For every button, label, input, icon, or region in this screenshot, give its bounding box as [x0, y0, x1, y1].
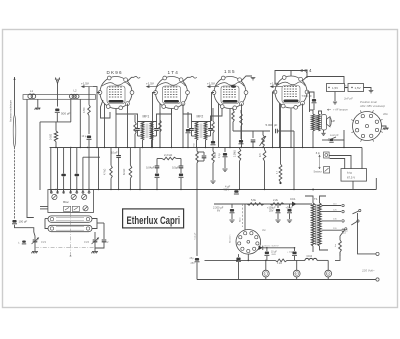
1S5 anode arm ground [242, 76, 253, 81]
svg-text:b.tg: b.tg [347, 171, 352, 175]
title box Etherlux Capri [123, 209, 184, 228]
battery wiring and ground [345, 87, 349, 89]
Bloc left exit wires [40, 206, 48, 208]
resistor x213 4.7k lower [212, 148, 214, 152]
selector common wire [358, 213, 377, 254]
resistor column x135 [134, 115, 136, 122]
capacitor 500pF antenna coupling [55, 109, 59, 112]
tube 3Q4 grids [284, 86, 298, 88]
capacitor x225 blob [224, 148, 226, 153]
tube pin wires down [218, 104, 220, 148]
svg-text:6V: 6V [217, 209, 220, 213]
tube 1S5 pins [244, 91, 248, 95]
svg-text:2,2 kΩ: 2,2 kΩ [164, 153, 172, 157]
tube DK96 electrode outline [107, 86, 125, 104]
svg-text:Abbl. OBV umsteuerp: Abbl. OBV umsteuerp [359, 104, 386, 108]
svg-text:L2: L2 [74, 89, 78, 93]
svg-text:1,5V: 1,5V [332, 86, 338, 90]
T1 top connections [305, 196, 313, 203]
socket ground [383, 128, 389, 130]
svg-text:Position tonal: Position tonal [360, 100, 377, 104]
speaker cone [327, 117, 331, 127]
tube 1T4 cathode bar [164, 100, 179, 103]
DK96 left column to lower bus [98, 148, 100, 190]
bus line upper (filament rail) [50, 147, 362, 149]
svg-text:/40V: /40V [272, 254, 277, 256]
svg-text:+ AF tampon: + AF tampon [333, 108, 348, 112]
bottom line to terminal [197, 279, 376, 281]
tube pin wires down [159, 104, 161, 148]
wire 1T4 anode to MF2 [183, 104, 192, 122]
capacitor under switch [238, 254, 240, 257]
antenna symbol [56, 78, 60, 84]
svg-text:2,2MΩ: 2,2MΩ [235, 150, 237, 157]
svg-text:5,6k: 5,6k [251, 198, 257, 202]
antenna lead insulator loop [13, 115, 16, 147]
svg-text:8.lg: 8.lg [316, 152, 321, 155]
svg-text:+1,5V: +1,5V [146, 81, 154, 85]
svg-text:Secteur: Secteur [314, 171, 322, 174]
upper bus right drop [361, 148, 363, 169]
bloc feed column 5 [88, 148, 90, 194]
padder cap T 1 [63, 148, 65, 174]
svg-text:3-500: 3-500 [50, 133, 53, 140]
tube socket pinout circle [353, 112, 382, 141]
trimmer CV2 [94, 232, 96, 239]
3Q4 top loop [290, 71, 292, 77]
svg-text:220 Volt~: 220 Volt~ [361, 269, 375, 273]
svg-text:T1: T1 [314, 197, 318, 201]
ferrite rod coil L2 [69, 94, 73, 98]
tube 3Q4 pins [305, 90, 309, 94]
tube 1T4 electrode outline [163, 86, 181, 104]
switch link arrows [319, 155, 321, 169]
wire left column x197 down [196, 190, 198, 257]
speaker wiring [310, 110, 314, 114]
switch top of fuse [340, 230, 345, 237]
tube 1T4 grids [165, 86, 179, 88]
MF2 down wires [196, 143, 198, 148]
svg-text:1S5: 1S5 [224, 69, 236, 74]
MF1 down wires [142, 143, 144, 148]
resistor x265 470k lower [264, 148, 266, 150]
svg-text:100 pF: 100 pF [19, 220, 28, 224]
wire cap 100pF to trimmer area [15, 225, 34, 232]
wire battery1 down to ground [334, 92, 336, 102]
svg-text:Etherlux Capri: Etherlux Capri [127, 215, 181, 227]
svg-text:CV2: CV2 [84, 240, 90, 244]
bus lower right riser [375, 178, 377, 190]
IF transformer MF2 wiring [191, 122, 193, 129]
oscillator junction line [40, 121, 71, 123]
bus line lower (ground rail) [49, 189, 376, 191]
IF transformer MF1 secondary winding [150, 122, 153, 141]
IF transformer MF1 core [146, 124, 148, 139]
IF transformer MF1 wiring [137, 122, 139, 129]
svg-text:40m: 40m [383, 112, 389, 116]
resistor 1M x213 upper [212, 108, 214, 121]
Bloc trimmer lower right [83, 206, 88, 211]
Bloc switch squares [64, 206, 71, 211]
speaker ground [323, 130, 325, 133]
svg-text:4700: 4700 [83, 107, 86, 113]
svg-text:CC1: CC1 [290, 197, 296, 201]
tube 3Q4 electrode outline [282, 86, 300, 104]
pilot lamp 3 [325, 270, 332, 277]
output transformer secondary [317, 114, 320, 131]
gang mechanical link dash-dot [35, 247, 95, 249]
3Q4 anode line right [303, 77, 345, 84]
IF transformer MF2 tuning capacitor left [189, 129, 194, 131]
svg-text:HP: HP [332, 119, 336, 123]
IF transformer MF2 core [200, 124, 202, 139]
svg-text:0,5µF: 0,5µF [172, 166, 179, 170]
tube 1S5 electrode outline [221, 86, 239, 104]
svg-text:Bloc: Bloc [63, 200, 69, 204]
svg-text:Tout µF: Tout µF [193, 232, 196, 240]
volume potentiometer [262, 131, 264, 135]
small padder blob [22, 241, 26, 243]
svg-text:3 kΩ: 3 kΩ [277, 263, 282, 265]
capacitor 7500pF at 3Q4 [307, 92, 314, 99]
pilot lamp 2 [293, 270, 300, 277]
output transformer primary [311, 114, 314, 131]
IF transformer MF1 tuning capacitor left [135, 129, 140, 131]
svg-text:Antenne extérieure: Antenne extérieure [9, 100, 13, 122]
IF transformer MF1 primary winding [141, 122, 144, 141]
capacitor column x188 [187, 112, 189, 128]
bloc feed column 4 [82, 157, 84, 193]
resistor 82k x130 [129, 148, 131, 166]
tube DK96 grids [109, 86, 123, 88]
DK96 anode arm [128, 77, 135, 81]
Bloc trimmer screws top row [52, 194, 57, 199]
tube DK96 pins [130, 91, 134, 95]
switch wiring to battery [329, 156, 351, 169]
svg-text:7.500 pF: 7.500 pF [302, 94, 313, 98]
voltage selector contacts [353, 211, 359, 214]
svg-text:Gleichr. 30,8737: Gleichr. 30,8737 [264, 245, 279, 247]
T1 bottom wiring [312, 246, 314, 252]
DK96 left pin loop [97, 93, 100, 148]
1T4 anode arm [183, 77, 191, 81]
bloc feed column 1 [50, 148, 52, 194]
IF transformer MF1 tuning capacitor right [154, 129, 159, 131]
3Q4 right pin wire [307, 92, 310, 112]
bloc feed column 3 [70, 148, 72, 194]
svg-text:115: 115 [342, 232, 346, 235]
tube 1T4 pins [186, 91, 190, 95]
svg-text:1T4: 1T4 [168, 70, 180, 75]
svg-text:82 kΩ: 82 kΩ [123, 168, 126, 175]
padder cap T 2 [76, 148, 78, 174]
tube 1S5 grids [223, 86, 237, 88]
tube pin wires down [104, 104, 106, 148]
tone cap 2000pF [330, 139, 334, 141]
battery + marks [345, 87, 346, 88]
cap beside CV2 [103, 223, 105, 239]
svg-text:t₁: t₁ [18, 242, 20, 245]
svg-text:450V: 450V [223, 188, 229, 192]
svg-text:Var: Var [262, 229, 266, 232]
svg-text:10 pF: 10 pF [111, 151, 118, 155]
fuse resistor [339, 240, 342, 252]
socket center hole [365, 124, 368, 127]
bloc feed column 2 [57, 148, 59, 194]
IF transformer MF2 secondary winding [204, 122, 207, 141]
svg-text:2,2k: 2,2k [273, 198, 279, 202]
dashed link to switch [242, 204, 244, 227]
svg-text:CC2: CC2 [307, 254, 313, 258]
resistor 470k x241 upper [240, 110, 242, 113]
resistor x197 1M [196, 148, 198, 152]
wire x140 column [139, 148, 141, 190]
ground CV1 [31, 252, 38, 254]
wire MF2 to 1S5 grid [211, 109, 223, 122]
tube DK96 envelope [100, 77, 132, 109]
tube 1T4 envelope [156, 77, 188, 109]
svg-text:L1: L1 [30, 89, 34, 93]
lamp feed line y260 [205, 259, 276, 261]
svg-text:DK96: DK96 [107, 70, 123, 75]
svg-text:+ 10µF: + 10µF [287, 252, 295, 254]
HT battery to lower bus [352, 181, 354, 189]
pilot lamp 1 [262, 270, 269, 277]
antenna lead lower hatched wire [14, 147, 16, 219]
T1 secondary taps [322, 205, 342, 207]
on-off switch box upper [324, 152, 330, 158]
T1 core [316, 204, 317, 245]
capacitor x253 [252, 131, 254, 138]
output line to bus [293, 131, 295, 190]
ground under coil L1 [37, 99, 39, 107]
series cap 5000pF [276, 129, 278, 134]
external antenna lead-in wire [14, 77, 16, 115]
tuning gang CV1 rotor [48, 216, 92, 222]
3Q4 left pin wire [273, 92, 276, 148]
svg-text:10 µ: 10 µ [82, 135, 87, 138]
coil pack box Bloc [48, 190, 94, 213]
svg-text:47kΩ: 47kΩ [214, 152, 217, 158]
capacitor x204 parallel [203, 152, 205, 155]
svg-text:500 pF: 500 pF [61, 112, 71, 116]
ground CV2 [91, 252, 98, 254]
antenna down wire [57, 84, 59, 107]
audio line y131 [233, 130, 270, 132]
1T4 left pin wire [153, 93, 156, 148]
wire L2 left terminal down [70, 99, 72, 122]
trimmer CV1 [34, 232, 35, 239]
svg-text:2nF pF: 2nF pF [343, 97, 353, 101]
electrolytic 10uF 40V no2 [294, 248, 296, 251]
wire 3Q4 area vertical x344 [343, 140, 345, 148]
resistor 5.6k supply [247, 203, 264, 206]
svg-text:47 kΩ: 47 kΩ [104, 168, 107, 175]
resistor x239 2.2M lower [239, 148, 241, 149]
wire column x40 to Bloc [39, 122, 41, 190]
svg-text:MF2: MF2 [197, 115, 204, 119]
resistor 47k x111 [110, 148, 112, 166]
svg-text:1,5V: 1,5V [355, 86, 361, 90]
capacitor 100pF [12, 220, 16, 223]
speaker frame [322, 115, 327, 131]
tube 1S5 cathode bar [223, 100, 238, 103]
tube 3Q4 envelope [275, 76, 307, 108]
resistor column x160 [159, 112, 161, 120]
wire L2 right terminal down [79, 99, 81, 147]
battery box 1 1.5V [327, 84, 345, 92]
wire L1 left terminal down to gang area [27, 99, 34, 217]
resistor 3k in lamp line [275, 259, 287, 262]
fuse bottom to lamp line [335, 252, 340, 260]
1S5 diode anode blob [231, 85, 236, 88]
svg-text:5.000 pF: 5.000 pF [266, 123, 278, 127]
electrolytic 10uF 40V no1 [266, 248, 268, 251]
resistor 2.2k supply [270, 203, 284, 206]
svg-text:25V: 25V [191, 262, 196, 265]
battery box 2 1.5V [348, 84, 364, 92]
supply line y204 [214, 203, 312, 205]
tube 1S5 envelope [214, 77, 246, 109]
tube DK96 cathode bar [109, 100, 124, 103]
tube pin wires down [279, 104, 281, 148]
svg-text:CV1: CV1 [41, 240, 47, 244]
wire 1.5V line to DK96 pin [93, 87, 97, 93]
svg-text:+1,5V: +1,5V [207, 81, 215, 85]
T1 primary winding [311, 203, 314, 246]
wire MF1 to 1T4 grid [157, 109, 172, 122]
wire DK96 anode to MF1 [116, 109, 138, 122]
svg-text:0,04µF: 0,04µF [146, 166, 155, 170]
IF transformer MF2 tuning capacitor right [208, 129, 213, 131]
switch stem wire [244, 204, 246, 230]
1S5 left pin wire [212, 93, 215, 122]
svg-text:25µ: 25µ [190, 257, 195, 260]
svg-text:Abstimm.: Abstimm. [229, 233, 232, 243]
gang connecting wires [45, 218, 48, 220]
T1 secondary winding [318, 203, 321, 246]
ferrite rod [23, 95, 96, 100]
tone switch contact [322, 139, 328, 141]
svg-text:Abst: Abst [239, 217, 242, 222]
mains terminal 1 [376, 252, 379, 255]
svg-text:0,1µ: 0,1µ [219, 153, 221, 158]
tuning gang CV2 rotor [48, 225, 92, 231]
svg-text:+1,5V: +1,5V [81, 81, 89, 85]
svg-text:MF1: MF1 [143, 115, 150, 119]
IF transformer MF2 primary winding [195, 122, 198, 141]
resistor x233 47k [232, 109, 234, 111]
detector line y248 [259, 247, 261, 249]
svg-text:67,5 V: 67,5 V [347, 176, 355, 180]
line y157 to oscillator [83, 156, 100, 158]
ferrite rod coil L1 [28, 94, 33, 99]
mains terminal 2 [376, 278, 379, 281]
on-off switch box lower [324, 167, 330, 174]
rotary switch wafer circle [236, 230, 261, 255]
svg-text:25V: 25V [269, 210, 274, 213]
socket radial ticks [380, 131, 382, 132]
tube 3Q4 cathode bar [284, 100, 299, 103]
Bloc wire entries [50, 190, 52, 194]
HT battery box 67.5V [341, 169, 367, 182]
svg-text:Lout pF: Lout pF [330, 134, 339, 137]
